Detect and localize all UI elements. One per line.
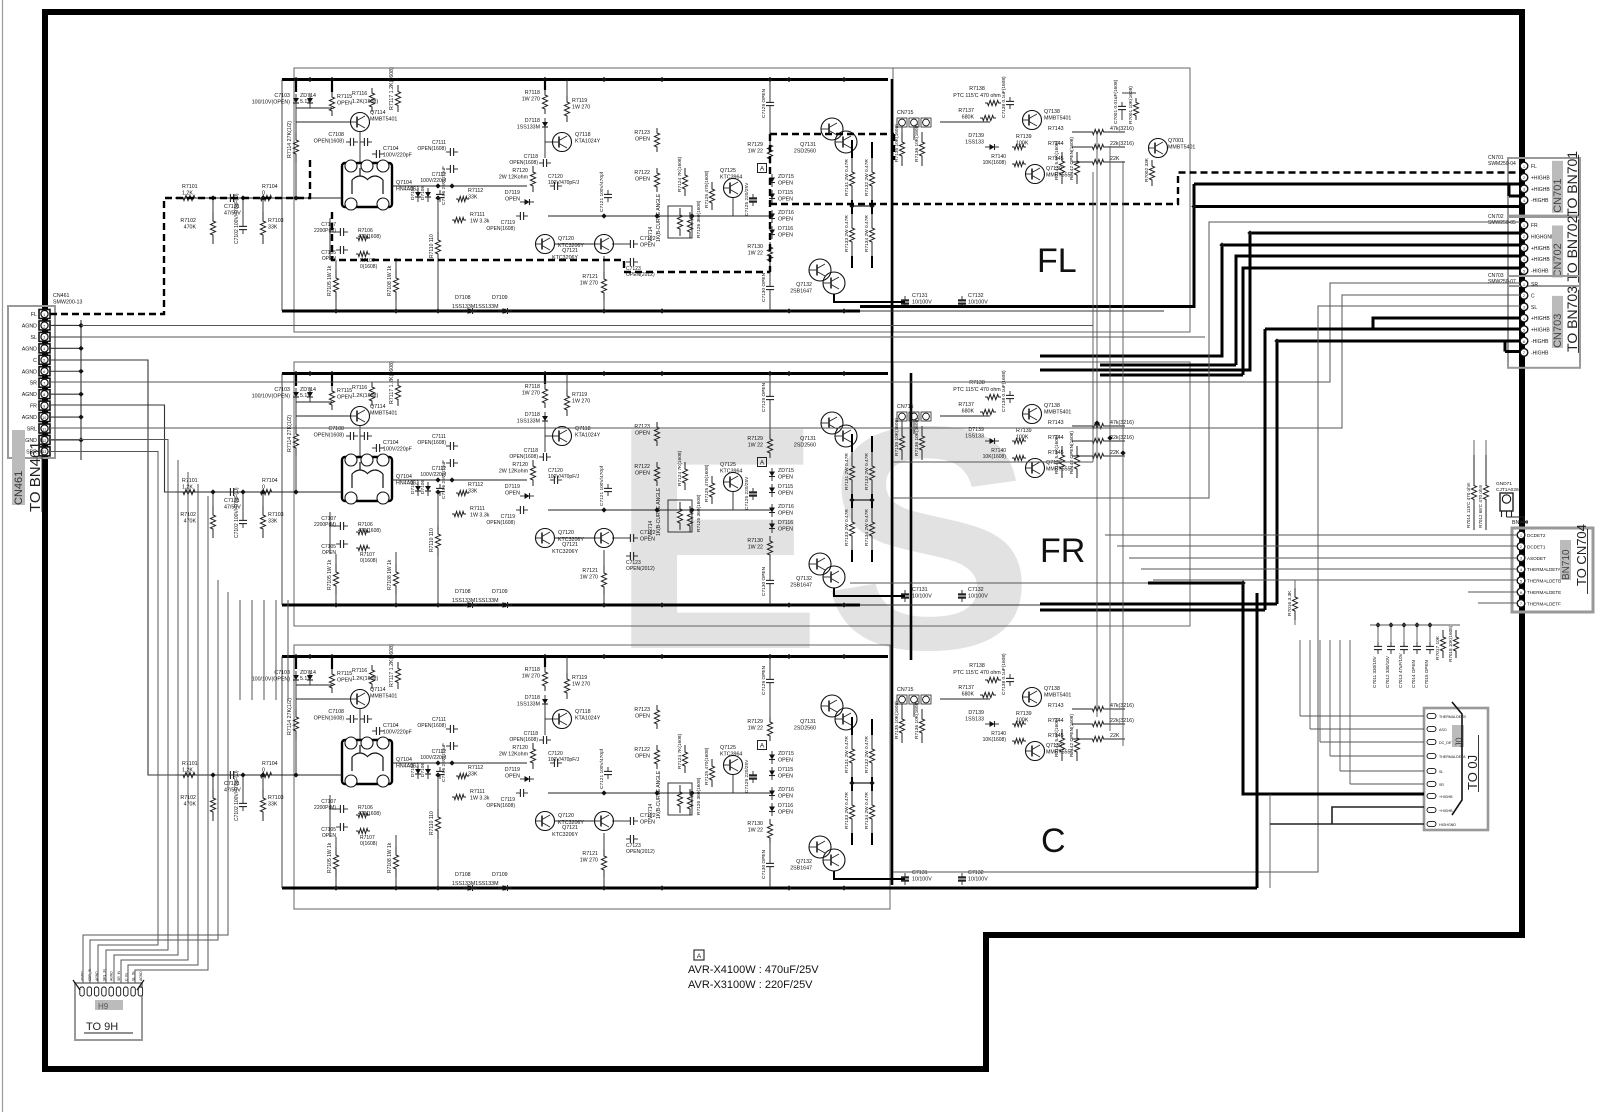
svg-text:VR714: VR714 xyxy=(648,226,654,242)
svg-text:OPEN(1608): OPEN(1608) xyxy=(314,139,345,145)
svg-text:PTC 115'C 470 ohm: PTC 115'C 470 ohm xyxy=(953,93,1001,99)
svg-text:AGND: AGND xyxy=(22,369,37,375)
svg-text:1: 1 xyxy=(1520,534,1522,538)
svg-text:5.1V: 5.1V xyxy=(300,99,311,105)
svg-text:OPEN(1608): OPEN(1608) xyxy=(486,226,515,232)
svg-text:-HIGHB: -HIGHB xyxy=(1531,269,1549,275)
svg-text:C7014 OPEN: C7014 OPEN xyxy=(1411,660,1416,688)
svg-text:C7103: C7103 xyxy=(274,93,290,99)
svg-text:SMW200-13: SMW200-13 xyxy=(53,300,82,306)
svg-text:1W 22: 1W 22 xyxy=(748,251,763,257)
svg-text:ASODET: ASODET xyxy=(1527,556,1546,561)
svg-text:FL: FL xyxy=(1531,164,1537,170)
svg-text:D7115: D7115 xyxy=(778,190,793,196)
svg-text:CN702: CN702 xyxy=(1488,214,1504,220)
svg-text:CN703: CN703 xyxy=(1552,314,1564,348)
svg-text:R7116: R7116 xyxy=(352,91,367,97)
svg-text:TO BN702: TO BN702 xyxy=(1564,215,1580,281)
svg-text:R7103: R7103 xyxy=(268,218,284,224)
svg-text:C7131: C7131 xyxy=(912,293,928,299)
svg-text:SR: SR xyxy=(1439,783,1444,787)
svg-text:1W 270: 1W 270 xyxy=(522,97,540,103)
svg-text:1.2K: 1.2K xyxy=(182,191,193,197)
svg-text:R7112: R7112 xyxy=(468,188,483,194)
svg-text:1: 1 xyxy=(1523,283,1525,287)
svg-text:47k(3216): 47k(3216) xyxy=(1110,126,1134,132)
svg-text:R7136 10K(1608): R7136 10K(1608) xyxy=(914,124,920,162)
svg-text:ZD716: ZD716 xyxy=(778,210,794,216)
svg-text:HIGHGND: HIGHGND xyxy=(1531,234,1555,240)
svg-text:FR: FR xyxy=(30,404,37,410)
svg-text:R7137: R7137 xyxy=(958,108,974,114)
svg-text:4: 4 xyxy=(1520,568,1522,572)
svg-text:DCDET1: DCDET1 xyxy=(1527,544,1546,549)
svg-text:Q7104: Q7104 xyxy=(396,180,412,186)
svg-text:33K: 33K xyxy=(268,225,278,231)
svg-text:+HIGHB: +HIGHB xyxy=(1531,187,1550,193)
svg-text:BN710: BN710 xyxy=(1561,549,1572,580)
svg-text:D7108: D7108 xyxy=(455,295,471,301)
svg-text:4: 4 xyxy=(43,347,45,351)
svg-text:SL: SL xyxy=(1531,305,1537,311)
svg-text:C7013 47uF/10V: C7013 47uF/10V xyxy=(1398,652,1403,688)
svg-text:D7106: D7106 xyxy=(420,186,426,200)
svg-text:2W 12Kohm: 2W 12Kohm xyxy=(499,175,529,181)
svg-text:R7001 10K(1608): R7001 10K(1608) xyxy=(1128,86,1134,124)
svg-text:C7129 OPEN: C7129 OPEN xyxy=(761,88,767,118)
svg-text:2: 2 xyxy=(1523,294,1525,298)
svg-text:FR: FR xyxy=(1531,223,1538,229)
svg-text:3: 3 xyxy=(1523,306,1525,310)
svg-text:1W 270: 1W 270 xyxy=(572,105,590,111)
svg-text:FL: FL xyxy=(1037,242,1077,280)
svg-text:D7109: D7109 xyxy=(492,295,508,301)
svg-text:BN710: BN710 xyxy=(1512,520,1528,526)
svg-text:TO CN704: TO CN704 xyxy=(1574,524,1589,586)
svg-text:CN701: CN701 xyxy=(1552,179,1564,213)
svg-text:100V/220pF: 100V/220pF xyxy=(383,153,413,159)
svg-text:C: C xyxy=(33,358,37,364)
svg-text:AGND: AGND xyxy=(22,415,37,421)
svg-text:FR: FR xyxy=(1040,532,1085,570)
svg-text:Q7125: Q7125 xyxy=(720,168,736,174)
svg-text:6: 6 xyxy=(43,370,45,374)
svg-text:R7106: R7106 xyxy=(358,228,373,234)
svg-text:-HIGHB: -HIGHB xyxy=(1531,339,1549,345)
svg-text:THERMALDETF: THERMALDETF xyxy=(1527,601,1561,606)
svg-text:C7012 330/10V: C7012 330/10V xyxy=(1385,655,1390,688)
svg-text:0(1608): 0(1608) xyxy=(360,264,378,270)
svg-text:470K: 470K xyxy=(184,225,197,231)
svg-text:7: 7 xyxy=(43,382,45,386)
svg-text:100K: 100K xyxy=(1016,141,1029,147)
svg-text:AGND: AGND xyxy=(110,971,114,981)
svg-text:DCDET2: DCDET2 xyxy=(1527,533,1546,538)
svg-text:3: 3 xyxy=(43,336,45,340)
svg-text:OPEN: OPEN xyxy=(778,197,793,203)
svg-text:SL: SL xyxy=(1439,770,1443,774)
svg-text:Q7118: Q7118 xyxy=(575,132,591,138)
svg-text:AGND: AGND xyxy=(22,392,37,398)
svg-text:1: 1 xyxy=(43,313,45,317)
svg-text:MMBT5401: MMBT5401 xyxy=(370,117,397,123)
svg-text:5: 5 xyxy=(43,359,45,363)
svg-text:4: 4 xyxy=(1523,199,1525,203)
svg-text:R7124 7K(1608): R7124 7K(1608) xyxy=(677,156,683,192)
svg-text:R7105 1W 1k: R7105 1W 1k xyxy=(327,265,333,296)
svg-text:OPEN: OPEN xyxy=(778,233,793,239)
svg-text:R7123: R7123 xyxy=(634,130,650,136)
svg-text:ASO: ASO xyxy=(1439,728,1447,732)
svg-text:470(1608): 470(1608) xyxy=(358,234,381,240)
svg-text:C7015 OPEN: C7015 OPEN xyxy=(1424,660,1429,688)
svg-text:OPEN: OPEN xyxy=(337,101,352,107)
svg-text:+HIGHB: +HIGHB xyxy=(1531,257,1550,263)
svg-text:R7118: R7118 xyxy=(525,90,540,96)
svg-text:KTC3964: KTC3964 xyxy=(720,175,742,181)
svg-text:R7132 2W 0.47R: R7132 2W 0.47R xyxy=(864,159,870,196)
svg-text:C7119: C7119 xyxy=(501,220,516,226)
svg-text:SRL: SRL xyxy=(27,427,37,433)
svg-text:C7108: C7108 xyxy=(328,132,344,138)
svg-text:THERMALDETA: THERMALDETA xyxy=(1527,567,1562,572)
svg-text:Q7131: Q7131 xyxy=(800,142,816,148)
svg-text:KTA1024Y: KTA1024Y xyxy=(575,139,601,145)
svg-text:AGND: AGND xyxy=(22,346,37,352)
svg-text:R7012 65'C 470 ohm: R7012 65'C 470 ohm xyxy=(1478,485,1483,528)
svg-text:C7107: C7107 xyxy=(321,222,336,228)
svg-text:R7133 2W 0.47R: R7133 2W 0.47R xyxy=(844,215,850,252)
svg-text:R7122: R7122 xyxy=(634,170,650,176)
svg-text:C7121 100V/470pf: C7121 100V/470pf xyxy=(599,171,605,212)
svg-text:C7120: C7120 xyxy=(548,174,563,180)
svg-text:1SS133M1SS133M: 1SS133M1SS133M xyxy=(452,304,499,310)
svg-text:22K: 22K xyxy=(1110,156,1120,162)
svg-text:R7121: R7121 xyxy=(582,274,598,280)
svg-text:10/100V: 10/100V xyxy=(968,300,988,306)
svg-text:5: 5 xyxy=(1523,269,1525,273)
svg-text:9: 9 xyxy=(43,404,45,408)
svg-text:5: 5 xyxy=(1523,328,1525,332)
svg-text:CN461: CN461 xyxy=(53,293,70,299)
svg-text:3: 3 xyxy=(1520,557,1522,561)
svg-text:D7105: D7105 xyxy=(410,186,416,200)
svg-text:1: 1 xyxy=(1523,165,1525,169)
svg-text:R7102: R7102 xyxy=(180,218,196,224)
svg-text:TO BN703: TO BN703 xyxy=(1564,286,1580,352)
svg-text:R7139: R7139 xyxy=(1016,134,1032,140)
svg-text:-HIGHB: -HIGHB xyxy=(1531,198,1549,204)
svg-text:OPEN: OPEN xyxy=(778,217,793,223)
svg-text:SMW250-07: SMW250-07 xyxy=(1488,279,1516,285)
svg-text:R7002 33K: R7002 33K xyxy=(1144,157,1150,182)
svg-text:Q7001: Q7001 xyxy=(1168,138,1184,144)
svg-text:A: A xyxy=(760,166,765,173)
svg-text:11: 11 xyxy=(42,427,46,431)
svg-text:R7014 115'C 470 ohm: R7014 115'C 470 ohm xyxy=(1466,482,1471,528)
svg-text:OPEN: OPEN xyxy=(505,197,520,203)
svg-text:22k(3216): 22k(3216) xyxy=(1110,141,1134,147)
svg-text:OPEN(1608): OPEN(1608) xyxy=(509,160,538,166)
svg-text:THERMALDETB: THERMALDETB xyxy=(1527,579,1561,584)
svg-text:SWM250-04: SWM250-04 xyxy=(1488,161,1516,167)
svg-text:C7118: C7118 xyxy=(524,154,539,160)
svg-text:+HIGHB: +HIGHB xyxy=(1531,246,1550,252)
svg-text:ZD715: ZD715 xyxy=(778,174,794,180)
svg-text:THERMALDETE: THERMALDETE xyxy=(1527,590,1561,595)
svg-text:CN701: CN701 xyxy=(1488,155,1504,161)
svg-text:OPEN(1608): OPEN(1608) xyxy=(417,146,446,152)
svg-text:MMBT5401: MMBT5401 xyxy=(1168,145,1195,151)
svg-text:4: 4 xyxy=(1523,258,1525,262)
svg-text:C: C xyxy=(1041,822,1066,860)
svg-text:2: 2 xyxy=(1523,235,1525,239)
svg-text:SMW250-05: SMW250-05 xyxy=(1488,220,1516,226)
svg-text:R7104: R7104 xyxy=(262,184,278,190)
svg-text:100/10V(OPEN): 100/10V(OPEN) xyxy=(252,100,291,106)
svg-text:D7119: D7119 xyxy=(505,190,520,196)
svg-text:SL: SL xyxy=(31,335,38,341)
svg-text:1W 270: 1W 270 xyxy=(580,281,598,287)
svg-text:R7110 110: R7110 110 xyxy=(429,234,435,258)
svg-text:R7119: R7119 xyxy=(572,98,587,104)
svg-text:8: 8 xyxy=(43,393,45,397)
svg-text:R7138: R7138 xyxy=(969,86,985,92)
svg-text:R7016 3.3K: R7016 3.3K xyxy=(1287,590,1293,616)
svg-text:D7139: D7139 xyxy=(968,133,984,139)
svg-text:R7115: R7115 xyxy=(337,94,352,100)
svg-text:2SD2560: 2SD2560 xyxy=(794,149,816,155)
svg-text:R7111: R7111 xyxy=(470,212,485,218)
svg-text:C7001 0.01uF(1608): C7001 0.01uF(1608) xyxy=(1113,79,1119,124)
svg-text:R7144: R7144 xyxy=(1048,141,1064,147)
svg-text:1SS133: 1SS133 xyxy=(965,140,984,146)
svg-text:+HIGHB: +HIGHB xyxy=(1439,795,1453,799)
svg-text:2: 2 xyxy=(1520,545,1522,549)
svg-text:C7138 0.1uF(1608): C7138 0.1uF(1608) xyxy=(1001,76,1007,118)
svg-text:0: 0 xyxy=(262,191,265,197)
svg-text:C7106 25V/470uF: C7106 25V/470uF xyxy=(441,166,447,205)
svg-text:CJT1A026: CJT1A026 xyxy=(1496,487,1519,493)
svg-text:R7108 1W 1k: R7108 1W 1k xyxy=(387,265,393,296)
svg-text:C7102 100V/470pF(/J): C7102 100V/470pF(/J) xyxy=(234,193,240,244)
svg-text:R7134 2W 0.47R: R7134 2W 0.47R xyxy=(864,215,870,252)
svg-text:6: 6 xyxy=(1520,591,1522,595)
svg-text:R7130: R7130 xyxy=(747,244,763,250)
svg-text:Q7121: Q7121 xyxy=(562,248,578,254)
svg-text:R7142 OPEN(1608): R7142 OPEN(1608) xyxy=(1069,137,1075,180)
svg-text:+HIGHB: +HIGHB xyxy=(1531,175,1550,181)
svg-text:R7145: R7145 xyxy=(1048,156,1064,162)
svg-text:10K(1608): 10K(1608) xyxy=(983,160,1007,166)
svg-text:R7017 10K: R7017 10K xyxy=(1435,635,1441,660)
svg-text:2: 2 xyxy=(1523,176,1525,180)
svg-text:CN703: CN703 xyxy=(1488,273,1504,279)
svg-text:SR: SR xyxy=(30,381,38,387)
svg-text:C7130 OPEN: C7130 OPEN xyxy=(761,272,767,302)
svg-text:C7011 330/10V: C7011 330/10V xyxy=(1372,655,1377,688)
svg-text:CN715: CN715 xyxy=(897,110,914,116)
svg-text:R7018 10K(1608): R7018 10K(1608) xyxy=(1448,625,1453,662)
svg-text:-HIGHB: -HIGHB xyxy=(1531,350,1549,356)
svg-text:R7131 2W 0.47R: R7131 2W 0.47R xyxy=(844,159,850,196)
svg-text:6: 6 xyxy=(1523,340,1525,344)
svg-text:R7143: R7143 xyxy=(1048,126,1064,132)
svg-text:C7105: C7105 xyxy=(321,250,336,256)
svg-text:TO BN701: TO BN701 xyxy=(1564,151,1580,217)
svg-text:Q7138: Q7138 xyxy=(1044,109,1060,115)
svg-text:HIGHGND: HIGHGND xyxy=(1439,823,1456,827)
svg-text:10: 10 xyxy=(42,416,46,420)
svg-text:5: 5 xyxy=(1520,579,1522,583)
svg-text:GND71: GND71 xyxy=(1496,481,1512,487)
svg-text:AVR-X3100W : 220F/25V: AVR-X3100W : 220F/25V xyxy=(688,979,813,991)
svg-text:2: 2 xyxy=(43,324,45,328)
svg-text:MMBT5401: MMBT5401 xyxy=(1044,116,1071,122)
svg-text:D7118: D7118 xyxy=(525,118,540,124)
svg-text:1W 22: 1W 22 xyxy=(748,149,763,155)
svg-text:FL: FL xyxy=(31,312,37,318)
svg-text:R7117 1.2K(1608): R7117 1.2K(1608) xyxy=(389,67,395,110)
svg-text:2SB1647: 2SB1647 xyxy=(790,289,812,295)
svg-text:OPEN: OPEN xyxy=(635,177,650,183)
svg-text:OPEN: OPEN xyxy=(778,181,793,187)
svg-text:SR_IN: SR_IN xyxy=(117,970,121,981)
svg-text:H9: H9 xyxy=(98,1002,109,1011)
svg-text:R7114 27K(1/2): R7114 27K(1/2) xyxy=(287,121,293,158)
svg-text:4: 4 xyxy=(1523,317,1525,321)
svg-text:+HIGHB: +HIGHB xyxy=(1531,316,1550,322)
svg-text:R7101: R7101 xyxy=(182,184,198,190)
svg-text:3: 3 xyxy=(1523,188,1525,192)
svg-text:10/100V: 10/100V xyxy=(912,300,932,306)
svg-text:+HIGHB: +HIGHB xyxy=(1531,328,1550,334)
svg-text:3: 3 xyxy=(1523,247,1525,251)
svg-text:1SS133M: 1SS133M xyxy=(517,125,540,131)
svg-text:AGND: AGND xyxy=(22,323,37,329)
svg-text:33K: 33K xyxy=(468,195,478,201)
svg-text:7: 7 xyxy=(1523,351,1525,355)
svg-text:R7125 470(1608): R7125 470(1608) xyxy=(704,170,710,208)
svg-text:SR: SR xyxy=(1531,282,1538,288)
svg-text:TO 9H: TO 9H xyxy=(86,1021,118,1033)
svg-text:680K: 680K xyxy=(962,115,975,121)
svg-text:R7140: R7140 xyxy=(991,154,1006,160)
svg-text:D7116: D7116 xyxy=(778,226,793,232)
svg-text:TO BN461: TO BN461 xyxy=(27,441,44,512)
svg-text:R7120: R7120 xyxy=(512,168,528,174)
svg-text:1W 3.3k: 1W 3.3k xyxy=(470,219,490,225)
svg-text:R7126 360(1608): R7126 360(1608) xyxy=(696,200,702,238)
svg-text:A: A xyxy=(697,953,702,960)
svg-text:R7129: R7129 xyxy=(747,142,763,148)
svg-text:+HIGHB: +HIGHB xyxy=(1439,809,1453,813)
svg-text:OPEN: OPEN xyxy=(635,137,650,143)
svg-text:CN702: CN702 xyxy=(1552,243,1564,277)
svg-text:C7125 220/25V: C7125 220/25V xyxy=(744,182,750,216)
svg-text:100V/470pF/J: 100V/470pF/J xyxy=(548,180,580,186)
svg-text:TO 0J: TO 0J xyxy=(1465,755,1480,790)
svg-text:AVR-X4100W : 470uF/25V: AVR-X4100W : 470uF/25V xyxy=(688,964,819,976)
svg-text:1: 1 xyxy=(1523,224,1525,228)
svg-text:CN461: CN461 xyxy=(13,471,25,505)
svg-text:7: 7 xyxy=(1520,602,1522,606)
svg-text:C7132: C7132 xyxy=(968,293,984,299)
svg-text:C7104: C7104 xyxy=(383,146,399,152)
svg-text:OPEN: OPEN xyxy=(640,243,655,249)
svg-text:Q7132: Q7132 xyxy=(796,282,812,288)
svg-text:C7111: C7111 xyxy=(432,140,446,146)
svg-text:C: C xyxy=(1531,293,1535,299)
svg-text:1K(B-CURVE ANGLE: 1K(B-CURVE ANGLE xyxy=(656,193,662,242)
svg-text:AGND: AGND xyxy=(139,971,143,981)
svg-text:Q7120: Q7120 xyxy=(558,236,574,242)
